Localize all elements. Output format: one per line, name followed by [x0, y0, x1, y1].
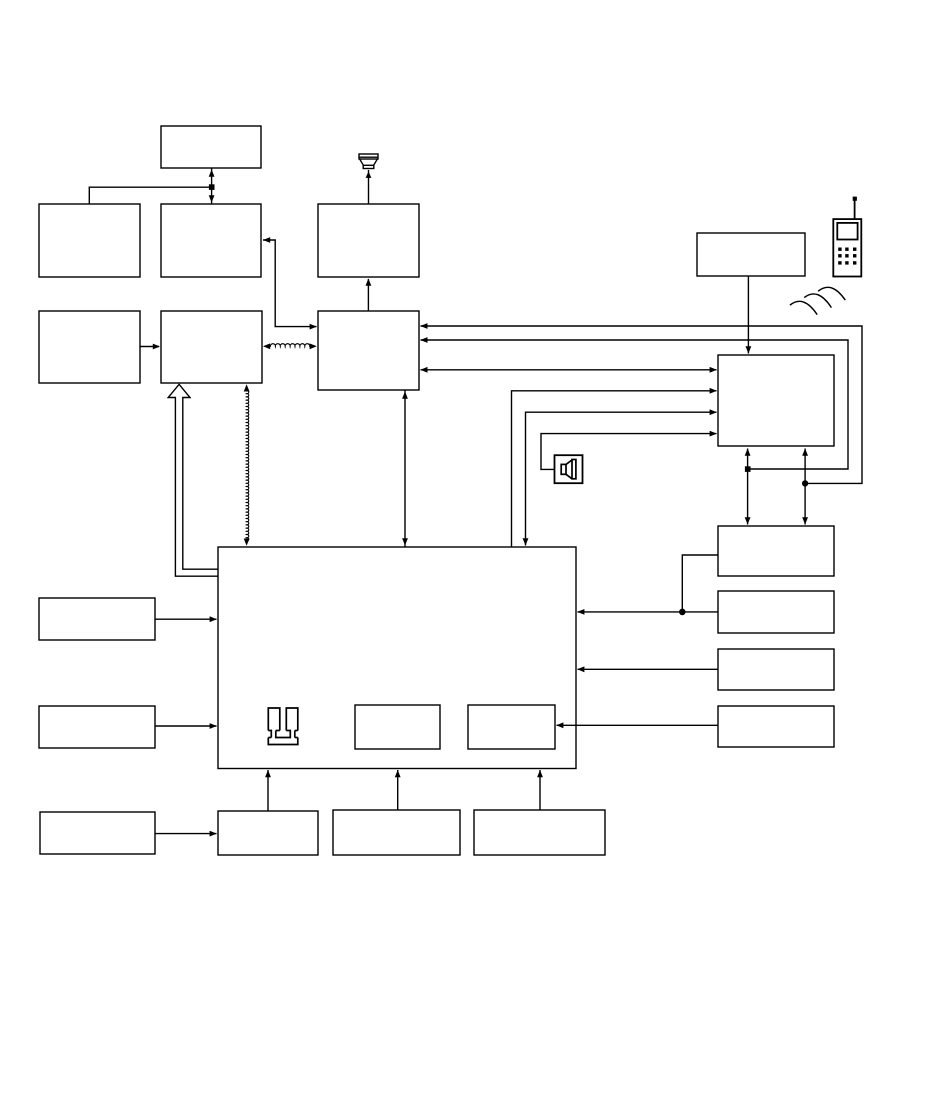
- wire B10 tap to B11 line: [682, 555, 718, 612]
- hollow arrow from MAIN into B6 (outline arrow with L-shaped double-line shaft): [168, 384, 218, 576]
- radio wave arc 1 (lower left): [790, 301, 817, 314]
- block MAIN (large central box): [218, 547, 576, 769]
- junction dot net A: [803, 481, 808, 486]
- wire BT3 to MAIN arrow up: [537, 770, 543, 810]
- antenna symbol above B4: [359, 154, 378, 169]
- wire B8 to B9 arrow down: [746, 276, 752, 354]
- block B7 (row3 right box): [318, 311, 419, 390]
- block IN1 (inner sub-box 1 of MAIN): [355, 705, 440, 749]
- wire coiled link B6-MAIN (vertical squiggle, arrows both ends): [246, 390, 248, 541]
- block LF2 (left column box 2): [39, 706, 155, 748]
- wire coiled link B6-B7 (horizontal squiggle, arrows both ends): [270, 344, 309, 347]
- block B13 (right stack box 4): [718, 706, 834, 747]
- wire MAIN-B9 double-arrow (via y=412): [523, 409, 717, 545]
- block IN2 (inner sub-box 2 of MAIN): [468, 705, 555, 749]
- block B9 (right central box): [718, 355, 834, 446]
- radio wave arc 2 (middle): [804, 294, 831, 308]
- radio wave arc 3 (upper right): [818, 287, 845, 300]
- wire LF3 to BT1 arrow: [155, 831, 217, 837]
- wire antenna feed from B4 with up arrow: [366, 170, 372, 204]
- wire B7-B9 horizontal double-arrow link: [420, 367, 717, 373]
- block B5 (row3 far-left box): [39, 311, 140, 383]
- block B11 (right stack box 2): [718, 591, 834, 633]
- wire wrap-around net A: B9 bottom / B10 top / around right to B7: [802, 449, 808, 525]
- block B12 (right stack box 3): [718, 649, 834, 690]
- junction dot on B1-B3 link: [210, 185, 214, 189]
- block BT2 (bottom row box 2): [333, 810, 460, 855]
- block BT1 (bottom row box 1): [218, 811, 318, 855]
- wire B3-B7 L-shaped double-arrow link: [263, 237, 317, 329]
- wire B11 to MAIN arrow: [577, 609, 718, 615]
- cell phone keypad dots: [838, 248, 856, 265]
- wire speaker to B9: [541, 431, 717, 470]
- block B1 (top-left small box): [161, 126, 261, 168]
- cell phone icon: [833, 197, 861, 277]
- junction dot B10 tap: [680, 609, 685, 614]
- junction dot net B: [746, 467, 750, 471]
- wire B12 to MAIN arrow: [577, 666, 718, 672]
- block LF1 (left column box 1): [39, 598, 155, 640]
- wire B13 to IN2 arrow: [556, 722, 718, 728]
- wire LF2 to MAIN arrow: [155, 723, 217, 729]
- wire B1-B3 vertical double-arrow link: [209, 168, 215, 204]
- wire BT2 to MAIN arrow up: [395, 770, 401, 810]
- connector icon inside MAIN (two-prong dock connector): [268, 708, 298, 745]
- wire MAIN to B9 (via y=391): [512, 388, 717, 547]
- speaker symbol inside box: [561, 460, 576, 479]
- wire B7 to B4 arrow up: [366, 279, 372, 312]
- wire BT1 to MAIN arrow up: [265, 770, 271, 811]
- wire B5 to B6 arrow: [140, 344, 160, 350]
- block B4 (antenna transceiver box): [318, 204, 419, 277]
- block B10 (right stack box 1): [718, 526, 834, 576]
- wire wrap-around net B: B9 bottom / B10 top / around right to B7: [745, 449, 751, 525]
- block B2 (row2 far-left box): [39, 204, 140, 277]
- block BT3 (bottom row box 3): [474, 810, 605, 855]
- wire LF1 to MAIN arrow: [155, 616, 217, 622]
- block B3 (row2 middle box): [161, 204, 261, 277]
- speaker icon box: [555, 455, 583, 483]
- wire from B2 top to B1-B3 link: [89, 187, 211, 204]
- wire B7-MAIN vertical double-arrow link: [402, 390, 408, 547]
- block LF3 (bottom-left box): [40, 812, 155, 854]
- block B8 (top-right box): [697, 233, 805, 276]
- block B6 (row3 middle box): [161, 311, 262, 383]
